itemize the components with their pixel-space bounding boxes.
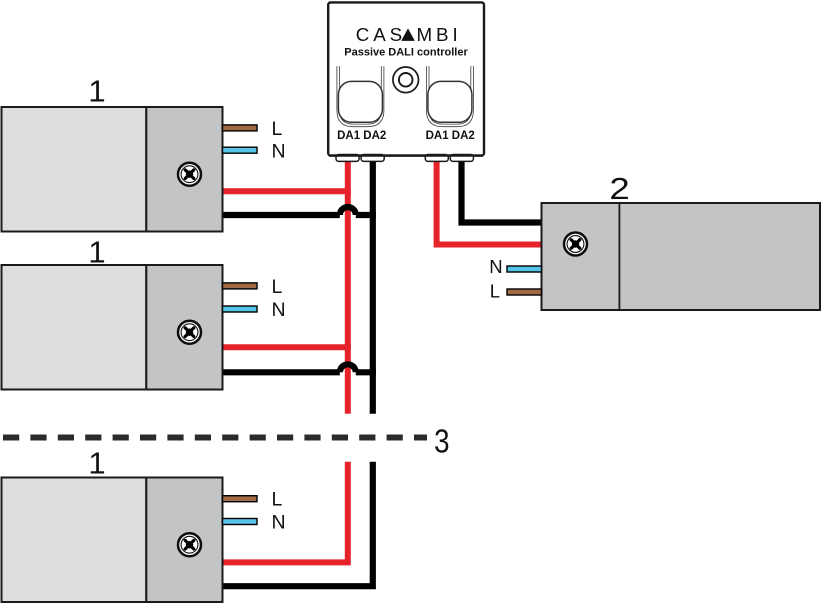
svg-text:1: 1: [88, 74, 105, 109]
svg-text:2: 2: [609, 172, 629, 207]
svg-text:N: N: [272, 299, 286, 321]
svg-text:N: N: [272, 140, 286, 162]
svg-text:3: 3: [434, 423, 449, 460]
svg-text:DA1 DA2: DA1 DA2: [426, 130, 475, 142]
svg-text:L: L: [272, 118, 283, 140]
svg-text:1: 1: [88, 446, 105, 481]
svg-text:Passive DALI controller: Passive DALI controller: [344, 46, 468, 58]
svg-text:N: N: [489, 256, 502, 277]
svg-text:L: L: [490, 280, 500, 301]
svg-text:DA1 DA2: DA1 DA2: [337, 130, 386, 142]
svg-text:CAS: CAS: [356, 24, 406, 45]
svg-text:N: N: [272, 512, 286, 534]
svg-text:1: 1: [88, 235, 105, 270]
svg-text:L: L: [272, 489, 283, 511]
svg-text:MBI: MBI: [417, 24, 462, 45]
svg-text:L: L: [272, 276, 283, 298]
